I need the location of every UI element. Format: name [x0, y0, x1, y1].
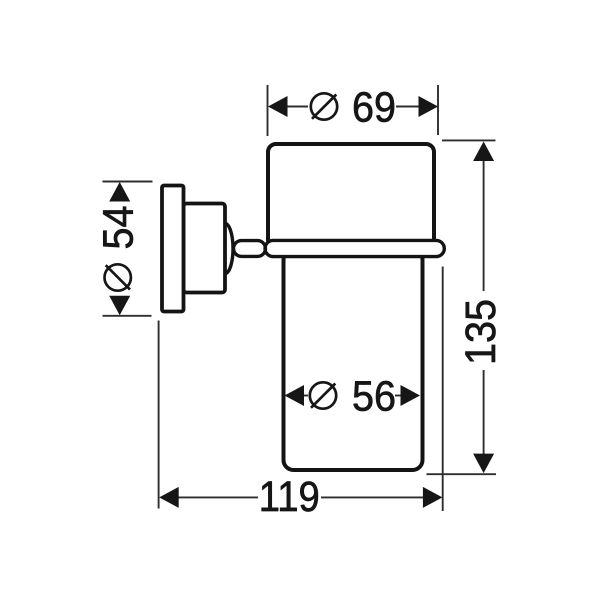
dim Ø69 right extension line — [437, 85, 439, 135]
dim 119 line left segment — [177, 496, 258, 498]
dim 135 top arrow — [473, 142, 494, 162]
dim Ø69 left arrow — [268, 96, 288, 117]
dim 119 left extension line — [158, 321, 160, 509]
dim 119 right arrow — [423, 487, 443, 508]
dim Ø69 line left segment — [286, 106, 308, 108]
dim Ø56 line right stub — [395, 395, 402, 397]
dim 135 line lower segment — [483, 370, 485, 455]
svg-text:119: 119 — [259, 473, 320, 521]
dim 135 bottom arrow — [473, 454, 494, 474]
dim Ø54 bottom extension line — [103, 315, 152, 317]
dim Ø69 left extension line — [267, 85, 269, 136]
dim Ø56 diameter symbol — [310, 382, 336, 408]
dim 135 bottom extension line — [427, 473, 497, 475]
dim 119 left arrow — [159, 487, 179, 508]
dim 135 rotated label — [457, 299, 505, 365]
dim 119 right extension line — [442, 267, 444, 512]
dim Ø56 line left stub — [301, 395, 308, 397]
dim Ø54 bottom arrow — [109, 296, 130, 316]
svg-text:54: 54 — [95, 206, 143, 250]
dim Ø69 right arrow — [419, 96, 439, 117]
dim Ø54 top arrow — [109, 182, 130, 202]
dim 135 line upper segment — [483, 160, 485, 291]
dim Ø69 diameter symbol — [311, 93, 337, 119]
arm pill fill — [234, 241, 266, 257]
holder ring outline — [265, 240, 444, 256]
svg-text:135: 135 — [457, 299, 505, 365]
dim Ø56 left arrow — [285, 385, 305, 406]
mount body — [184, 204, 226, 293]
svg-text:56: 56 — [352, 372, 396, 420]
dim Ø54 rotated label — [95, 206, 143, 291]
dim Ø54 diameter symbol — [105, 264, 131, 290]
arm pill outline — [234, 241, 266, 257]
holder ring fill — [265, 240, 444, 256]
dim 135 top extension line — [442, 139, 496, 141]
dim Ø69 line right segment — [396, 106, 419, 108]
dim Ø56 right arrow — [401, 385, 421, 406]
dim Ø54 top extension line — [103, 181, 153, 183]
cup upper section — [268, 144, 434, 248]
dim 119 line right segment — [321, 496, 423, 498]
wall plate — [162, 186, 184, 312]
cup lower body — [284, 250, 423, 470]
svg-text:69: 69 — [352, 83, 396, 131]
mount cone bulge — [217, 224, 233, 274]
